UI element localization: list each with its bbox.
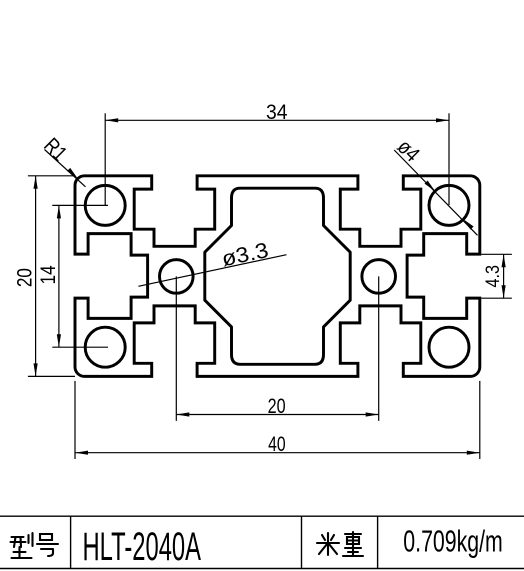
char mi	[317, 533, 339, 555]
dimension 20 left	[28, 176, 75, 377]
char xing	[11, 533, 33, 558]
char zhong	[343, 532, 363, 556]
svg-text:4.3: 4.3	[483, 265, 504, 288]
char hao	[37, 534, 58, 556]
corner hole bottom-left	[85, 327, 125, 367]
svg-text:40: 40	[268, 432, 286, 456]
svg-text:14: 14	[36, 265, 60, 284]
central octagonal cavity	[205, 188, 350, 364]
svg-text:0.709kg/m: 0.709kg/m	[403, 524, 503, 559]
dimension 40 bottom	[75, 381, 480, 459]
dimension 14 left	[52, 205, 108, 347]
profile outer outline with six T-slots	[75, 176, 480, 377]
corner hole bottom-right	[429, 327, 469, 367]
svg-text:20: 20	[12, 268, 36, 287]
leader R1	[45, 150, 86, 187]
leader dia 4	[394, 150, 477, 235]
corner hole top-left	[85, 185, 125, 225]
svg-text:20: 20	[268, 394, 286, 418]
corner hole top-right	[429, 185, 469, 225]
leader dia 3.3	[138, 255, 286, 287]
label xing hao (model)	[11, 533, 59, 558]
svg-text:HLT-2040A: HLT-2040A	[83, 525, 202, 569]
table	[0, 516, 524, 568]
dimension 20 bottom	[176, 276, 378, 421]
label mi zhong (weight per meter)	[317, 532, 363, 556]
dimension 34	[105, 113, 449, 205]
center hole left	[160, 260, 194, 294]
dimension 4.3 right	[481, 254, 512, 298]
svg-text:34: 34	[266, 100, 288, 124]
center hole right	[362, 260, 396, 294]
